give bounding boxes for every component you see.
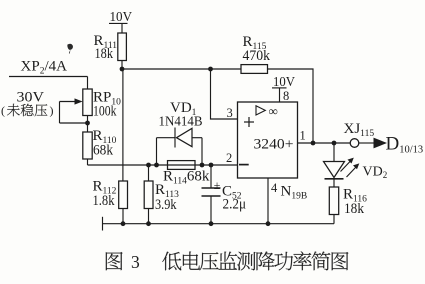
junction C52 at ground rail [209, 221, 214, 226]
junction pin4 at ground rail [266, 221, 271, 226]
svg-text:±: ± [214, 178, 221, 192]
resistor R116 18k [329, 179, 367, 224]
svg-text:10V: 10V [273, 74, 295, 89]
resistor R112 1.8k [93, 178, 128, 223]
svg-text:18k: 18k [344, 201, 364, 217]
junction VD1 right riser [200, 163, 205, 168]
junction output-LED branch [332, 141, 337, 146]
wire node A horizontal (R111 bottom to R115 and pin3 riser) [122, 68, 241, 70]
resistor R111 18k [94, 33, 127, 69]
wire op-amp output pin 1 [298, 142, 351, 144]
wire pin3 riser and stub [211, 69, 238, 119]
junction R113 top [146, 163, 151, 168]
wire inverting-input line (R110 bottom to pin 2) [88, 164, 238, 166]
caption: figure 3 low-voltage monitoring power-reduction schematic [106, 251, 349, 272]
svg-text:470k: 470k [243, 48, 271, 64]
wire node A down to R112 (crossover at inverting line) [122, 69, 124, 181]
svg-text:30V: 30V [17, 89, 45, 105]
junction pin3 riser [208, 67, 213, 72]
op-amp U/N19B CA3240 (comparator box) [238, 102, 298, 178]
power +10V rail (left, above R111) [109, 9, 132, 33]
svg-text:4: 4 [271, 181, 278, 195]
svg-text:2: 2 [226, 151, 232, 165]
power +10V rail (op-amp pin 8) [272, 74, 295, 102]
resistor R114 68k (series in inverting-input line) [163, 161, 210, 187]
svg-text:3: 3 [227, 106, 233, 120]
svg-text:∞: ∞ [269, 104, 278, 119]
svg-text:8: 8 [283, 89, 289, 103]
wire R115 right to feedback riser [268, 69, 314, 143]
svg-text:3240+: 3240+ [254, 137, 294, 153]
input label 30V (unregulated) [1, 89, 54, 117]
svg-text:): ) [50, 104, 54, 118]
svg-text:XP2/4A: XP2/4A [21, 58, 68, 76]
junction R112 at ground rail [121, 221, 126, 226]
svg-text:1: 1 [300, 129, 306, 143]
junction RP10 bottom / wiper tie [85, 121, 90, 126]
svg-text:10V: 10V [110, 9, 133, 24]
svg-text:3.9k: 3.9k [155, 197, 177, 213]
wire op-amp pin 4 to ground rail [267, 178, 269, 224]
svg-text:R11468k: R11468k [163, 169, 210, 187]
connector XJ115 (open circle) [344, 121, 375, 147]
svg-text:68k: 68k [93, 143, 113, 159]
svg-text:1.8k: 1.8k [93, 193, 115, 209]
potentiometer RP10 100k [83, 77, 121, 124]
svg-text:2.2μ: 2.2μ [223, 197, 247, 213]
resistor R115 470k (feedback) [241, 34, 270, 73]
junction C52 top [209, 163, 214, 168]
junction R113 at ground rail [146, 221, 151, 226]
signal arrow to D10/13 [359, 133, 423, 155]
svg-text:1N414B: 1N414B [159, 113, 203, 128]
svg-text:3: 3 [131, 252, 140, 272]
LED VD2 [324, 143, 388, 180]
svg-text:(: ( [1, 104, 5, 118]
svg-text:100k: 100k [93, 104, 117, 120]
svg-text:18k: 18k [95, 46, 114, 62]
scan speck (not part of circuit) [67, 44, 73, 54]
resistor R110 68k [83, 123, 117, 165]
resistor R113 3.9k [144, 165, 179, 224]
node A junction (R111/R112/R115/pin3) [120, 67, 125, 72]
RP10 wiper arrow (tied to bottom terminal) [60, 98, 88, 123]
junction output-feedback [311, 141, 316, 146]
junction VD1 left riser [154, 163, 159, 168]
capacitor C52 2.2u (electrolytic) [202, 165, 247, 224]
diode VD1 1N414B (parallel with R114) [157, 100, 203, 165]
ground/common bottom rail [103, 217, 335, 231]
wire XP2/4A input to RP10 top [9, 76, 88, 78]
